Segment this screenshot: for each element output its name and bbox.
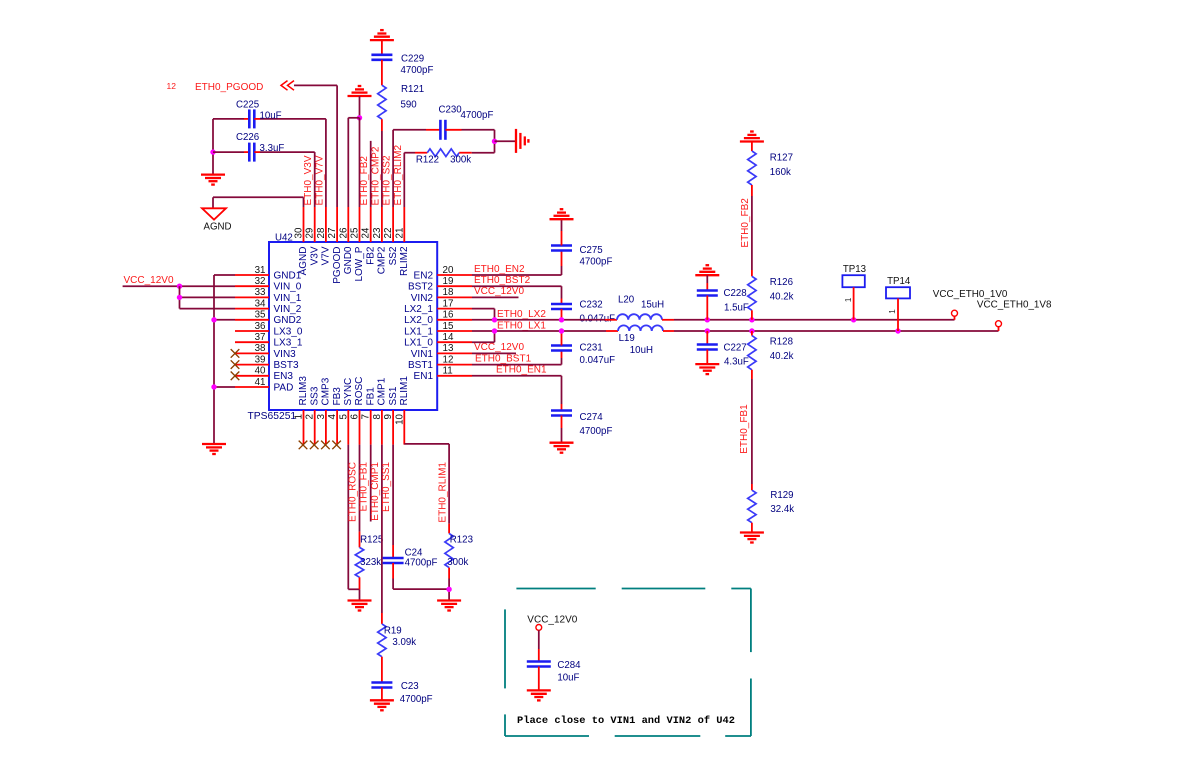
svg-text:LX3_1: LX3_1 — [274, 338, 303, 349]
svg-text:VCC_12V0: VCC_12V0 — [124, 275, 174, 286]
svg-text:LX3_0: LX3_0 — [274, 326, 303, 337]
svg-text:ETH0_V3V: ETH0_V3V — [303, 155, 314, 205]
svg-text:PAD: PAD — [274, 382, 294, 393]
svg-text:23: 23 — [372, 227, 383, 238]
svg-text:C230: C230 — [439, 105, 463, 116]
svg-text:V3V: V3V — [309, 246, 320, 265]
svg-text:R127: R127 — [770, 153, 793, 164]
svg-text:BST2: BST2 — [408, 282, 433, 293]
svg-text:8: 8 — [372, 413, 383, 419]
svg-text:40.2k: 40.2k — [770, 292, 794, 303]
svg-text:323k: 323k — [360, 557, 381, 568]
svg-text:ETH0_FB1: ETH0_FB1 — [739, 404, 750, 454]
svg-text:VCC_12V0: VCC_12V0 — [474, 286, 524, 297]
svg-text:9: 9 — [383, 414, 394, 419]
svg-text:L20: L20 — [618, 294, 635, 305]
svg-text:C232: C232 — [580, 300, 603, 311]
svg-text:C274: C274 — [580, 412, 604, 423]
svg-text:13: 13 — [443, 343, 454, 354]
svg-text:10uF: 10uF — [557, 672, 579, 683]
svg-text:R125: R125 — [360, 535, 383, 546]
svg-text:25: 25 — [350, 227, 361, 238]
svg-text:R123: R123 — [450, 535, 473, 546]
svg-text:VCC_12V0: VCC_12V0 — [474, 342, 524, 353]
svg-text:27: 27 — [327, 228, 338, 239]
svg-text:C229: C229 — [401, 53, 424, 64]
svg-text:7: 7 — [361, 414, 372, 419]
svg-text:PGOOD: PGOOD — [332, 247, 343, 284]
svg-text:TPS65251: TPS65251 — [248, 411, 297, 422]
svg-text:C225: C225 — [236, 99, 259, 110]
svg-text:VIN3: VIN3 — [274, 349, 297, 360]
svg-text:FB2: FB2 — [365, 246, 376, 265]
svg-text:R19: R19 — [384, 625, 402, 636]
svg-text:3: 3 — [316, 413, 327, 419]
svg-text:590: 590 — [401, 100, 418, 111]
svg-text:0.047uF: 0.047uF — [580, 355, 616, 366]
svg-text:10uF: 10uF — [260, 110, 282, 121]
svg-text:32.4k: 32.4k — [770, 504, 794, 515]
svg-text:1.5uF: 1.5uF — [724, 303, 749, 314]
svg-text:15uH: 15uH — [641, 300, 664, 311]
svg-text:4: 4 — [327, 413, 338, 419]
svg-text:C227: C227 — [724, 342, 747, 353]
svg-text:LX2_1: LX2_1 — [404, 304, 433, 315]
svg-text:1: 1 — [887, 309, 897, 314]
svg-text:ETH0_RLIM1: ETH0_RLIM1 — [438, 462, 449, 523]
svg-text:VCC_12V0: VCC_12V0 — [527, 614, 577, 625]
svg-text:L19: L19 — [619, 333, 635, 344]
svg-text:CMP1: CMP1 — [377, 377, 388, 405]
svg-text:2: 2 — [305, 414, 316, 419]
svg-text:ROSC: ROSC — [354, 377, 365, 406]
svg-text:1: 1 — [843, 297, 853, 302]
svg-text:EN2: EN2 — [414, 270, 434, 281]
svg-text:6: 6 — [350, 413, 361, 419]
svg-text:37: 37 — [255, 332, 266, 343]
svg-text:ETH0_EN2: ETH0_EN2 — [474, 264, 525, 275]
svg-text:LX2_0: LX2_0 — [404, 315, 433, 326]
svg-text:GND2: GND2 — [274, 315, 302, 326]
svg-text:CMP3: CMP3 — [321, 377, 332, 405]
svg-text:10uH: 10uH — [630, 345, 653, 356]
svg-text:36: 36 — [255, 321, 266, 332]
svg-text:22: 22 — [383, 228, 394, 239]
svg-text:ETH0_FB1: ETH0_FB1 — [359, 462, 370, 512]
svg-text:R122: R122 — [416, 155, 439, 166]
svg-text:EN3: EN3 — [274, 371, 294, 382]
svg-text:RLIM1: RLIM1 — [399, 376, 410, 406]
svg-text:40.2k: 40.2k — [770, 351, 794, 362]
svg-text:24: 24 — [361, 227, 372, 238]
svg-text:31: 31 — [255, 265, 266, 276]
svg-text:ETH0_BST1: ETH0_BST1 — [475, 353, 532, 364]
svg-text:300k: 300k — [450, 155, 471, 166]
svg-text:SS2: SS2 — [388, 246, 399, 265]
svg-text:CMP2: CMP2 — [377, 246, 388, 274]
svg-text:12: 12 — [167, 81, 177, 91]
svg-text:16: 16 — [443, 310, 454, 321]
svg-text:AGND: AGND — [204, 222, 232, 233]
svg-text:C228: C228 — [724, 288, 747, 299]
svg-text:RLIM3: RLIM3 — [298, 376, 309, 406]
svg-text:4700pF: 4700pF — [580, 256, 613, 267]
svg-text:4700pF: 4700pF — [400, 694, 433, 705]
svg-text:C284: C284 — [557, 660, 581, 671]
svg-text:Place close to VIN1 and VIN2 o: Place close to VIN1 and VIN2 of U42 — [517, 715, 735, 727]
svg-text:C275: C275 — [580, 245, 603, 256]
svg-text:18: 18 — [443, 287, 454, 298]
svg-text:39: 39 — [255, 354, 266, 365]
svg-text:4.3uF: 4.3uF — [724, 357, 749, 368]
svg-text:BST3: BST3 — [274, 360, 299, 371]
svg-text:ETH0_EN1: ETH0_EN1 — [496, 365, 547, 376]
svg-text:VIN2: VIN2 — [411, 293, 434, 304]
svg-text:32: 32 — [255, 276, 266, 287]
svg-text:28: 28 — [316, 227, 327, 238]
svg-text:SYNC: SYNC — [343, 378, 354, 406]
svg-text:FB3: FB3 — [332, 387, 343, 406]
svg-text:15: 15 — [443, 321, 454, 332]
svg-text:U42: U42 — [275, 232, 293, 243]
svg-text:VIN_2: VIN_2 — [274, 304, 302, 315]
svg-text:17: 17 — [443, 298, 454, 309]
svg-text:4700pF: 4700pF — [401, 65, 434, 76]
svg-text:VCC_ETH0_1V8: VCC_ETH0_1V8 — [977, 299, 1052, 310]
svg-text:21: 21 — [394, 228, 405, 239]
svg-text:19: 19 — [443, 276, 454, 287]
svg-text:TP13: TP13 — [843, 264, 866, 275]
svg-text:R121: R121 — [401, 84, 424, 95]
svg-text:V7V: V7V — [321, 246, 332, 265]
svg-text:3.3uF: 3.3uF — [260, 143, 285, 154]
svg-text:ETH0_FB2: ETH0_FB2 — [359, 156, 370, 206]
svg-text:40: 40 — [255, 366, 266, 377]
svg-text:ETH0_V7V: ETH0_V7V — [314, 155, 325, 205]
svg-text:ETH0_LX2: ETH0_LX2 — [497, 309, 546, 320]
svg-text:4700pF: 4700pF — [580, 426, 613, 437]
svg-text:SS3: SS3 — [309, 386, 320, 405]
svg-text:ETH0_RLIM2: ETH0_RLIM2 — [393, 144, 404, 205]
svg-text:34: 34 — [255, 298, 266, 309]
svg-text:ETH0_CMP2: ETH0_CMP2 — [370, 146, 381, 205]
svg-text:RLIM2: RLIM2 — [399, 246, 410, 276]
svg-text:ETH0_LX1: ETH0_LX1 — [497, 321, 546, 332]
svg-text:LX1_1: LX1_1 — [404, 326, 433, 337]
svg-text:10: 10 — [394, 413, 405, 424]
svg-text:ETH0_BST2: ETH0_BST2 — [474, 275, 531, 286]
svg-text:R129: R129 — [770, 490, 793, 501]
svg-text:ETH0_ROSC: ETH0_ROSC — [348, 462, 359, 522]
svg-text:35: 35 — [255, 310, 266, 321]
svg-text:33: 33 — [255, 287, 266, 298]
svg-text:4700pF: 4700pF — [461, 110, 494, 121]
svg-text:AGND: AGND — [298, 247, 309, 276]
svg-text:VIN1: VIN1 — [411, 349, 434, 360]
svg-text:C231: C231 — [580, 342, 603, 353]
svg-text:1: 1 — [294, 414, 305, 419]
svg-text:3.09k: 3.09k — [392, 637, 416, 648]
svg-text:VIN_1: VIN_1 — [274, 293, 302, 304]
svg-text:41: 41 — [255, 377, 266, 388]
svg-text:4700pF: 4700pF — [405, 558, 438, 569]
svg-text:160k: 160k — [770, 167, 791, 178]
svg-text:20: 20 — [443, 265, 454, 276]
svg-text:EN1: EN1 — [414, 371, 434, 382]
svg-text:30: 30 — [294, 227, 305, 238]
svg-text:5: 5 — [338, 413, 349, 419]
svg-text:TP14: TP14 — [887, 276, 911, 287]
svg-text:14: 14 — [443, 332, 454, 343]
svg-text:VIN_0: VIN_0 — [274, 282, 302, 293]
svg-text:C226: C226 — [236, 132, 259, 143]
svg-text:300k: 300k — [447, 557, 468, 568]
svg-text:BST1: BST1 — [408, 360, 433, 371]
svg-text:ETH0_CMP1: ETH0_CMP1 — [370, 462, 381, 521]
svg-text:ETH0_SS1: ETH0_SS1 — [381, 462, 392, 512]
svg-text:C23: C23 — [401, 681, 419, 692]
svg-text:R126: R126 — [770, 277, 793, 288]
svg-text:29: 29 — [305, 228, 316, 239]
svg-text:11: 11 — [443, 366, 453, 377]
svg-text:LOW_P: LOW_P — [354, 246, 365, 281]
svg-text:FB1: FB1 — [365, 387, 376, 406]
svg-text:LX1_0: LX1_0 — [404, 338, 433, 349]
svg-text:12: 12 — [443, 354, 454, 365]
svg-text:SS1: SS1 — [388, 386, 399, 405]
svg-text:R128: R128 — [770, 337, 793, 348]
svg-text:ETH0_SS2: ETH0_SS2 — [382, 155, 393, 205]
svg-text:GND0: GND0 — [343, 246, 354, 274]
svg-text:ETH0_PGOOD: ETH0_PGOOD — [195, 82, 263, 93]
svg-text:VCC_ETH0_1V0: VCC_ETH0_1V0 — [933, 289, 1008, 300]
svg-text:26: 26 — [338, 227, 349, 238]
svg-text:ETH0_FB2: ETH0_FB2 — [740, 198, 751, 248]
svg-text:38: 38 — [255, 343, 266, 354]
